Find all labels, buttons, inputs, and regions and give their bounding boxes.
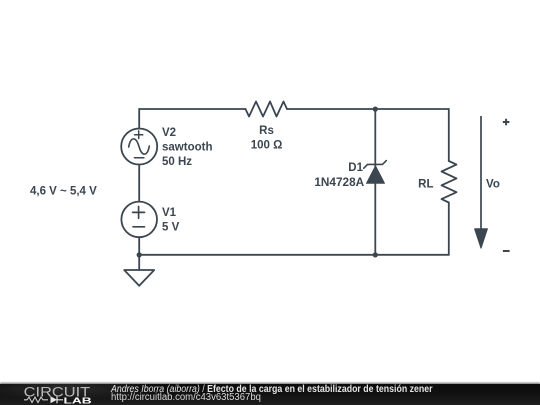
svg-text:V2: V2 bbox=[162, 127, 176, 139]
source V1 plus sign bbox=[133, 207, 145, 219]
source V2 circle bbox=[121, 129, 157, 165]
junction dot top of zener branch bbox=[373, 107, 378, 112]
svg-text:Rs: Rs bbox=[259, 125, 274, 137]
source V2 plus sign bbox=[135, 131, 143, 139]
svg-text:5 V: 5 V bbox=[162, 221, 180, 233]
svg-text:Vo: Vo bbox=[486, 179, 500, 191]
source V2 minus sign bbox=[134, 157, 144, 159]
diode D1 zener cathode bar bbox=[364, 161, 387, 169]
svg-text:100 Ω: 100 Ω bbox=[251, 140, 283, 152]
source V1 minus sign bbox=[133, 226, 145, 228]
Vo arrowhead bbox=[475, 229, 488, 248]
wire V1 to ground node bbox=[138, 237, 140, 270]
source V2 sine wave bbox=[129, 139, 150, 154]
source V1 circle bbox=[121, 202, 157, 238]
svg-text:50 Hz: 50 Hz bbox=[162, 156, 192, 168]
footer credit line bbox=[111, 385, 433, 395]
junction dot bottom of zener branch bbox=[373, 252, 378, 257]
svg-text:RL: RL bbox=[418, 178, 433, 190]
plus label of Vo bbox=[503, 119, 510, 126]
svg-text:LAB: LAB bbox=[64, 395, 92, 405]
svg-text:4,6 V ~ 5,4 V: 4,6 V ~ 5,4 V bbox=[30, 186, 97, 198]
minus label of Vo bbox=[503, 250, 510, 252]
footer bar bbox=[0, 384, 540, 405]
CircuitLab logo bbox=[0, 384, 110, 405]
resistor RL bbox=[442, 161, 457, 203]
ground bbox=[124, 270, 154, 286]
wire top horizontal right segment bbox=[287, 108, 449, 110]
svg-text:sawtooth: sawtooth bbox=[162, 142, 212, 154]
wire zener branch vertical bbox=[374, 109, 376, 255]
junction dot ground node bbox=[137, 252, 142, 257]
svg-text:V1: V1 bbox=[162, 207, 177, 219]
wire right vertical lower bbox=[448, 203, 450, 255]
wire bottom horizontal bbox=[139, 254, 449, 256]
wire V2 to V1 bbox=[138, 165, 140, 202]
resistor Rs bbox=[246, 102, 288, 117]
footer url line bbox=[111, 393, 261, 403]
svg-text:D1: D1 bbox=[348, 162, 363, 174]
Vo arrow line bbox=[480, 116, 482, 230]
svg-text:1N4728A: 1N4728A bbox=[314, 175, 364, 189]
wire V2 top lead bbox=[138, 109, 140, 129]
wire right vertical upper bbox=[448, 109, 450, 161]
wire top horizontal left segment bbox=[139, 108, 245, 110]
diode D1 zener triangle bbox=[367, 166, 385, 183]
